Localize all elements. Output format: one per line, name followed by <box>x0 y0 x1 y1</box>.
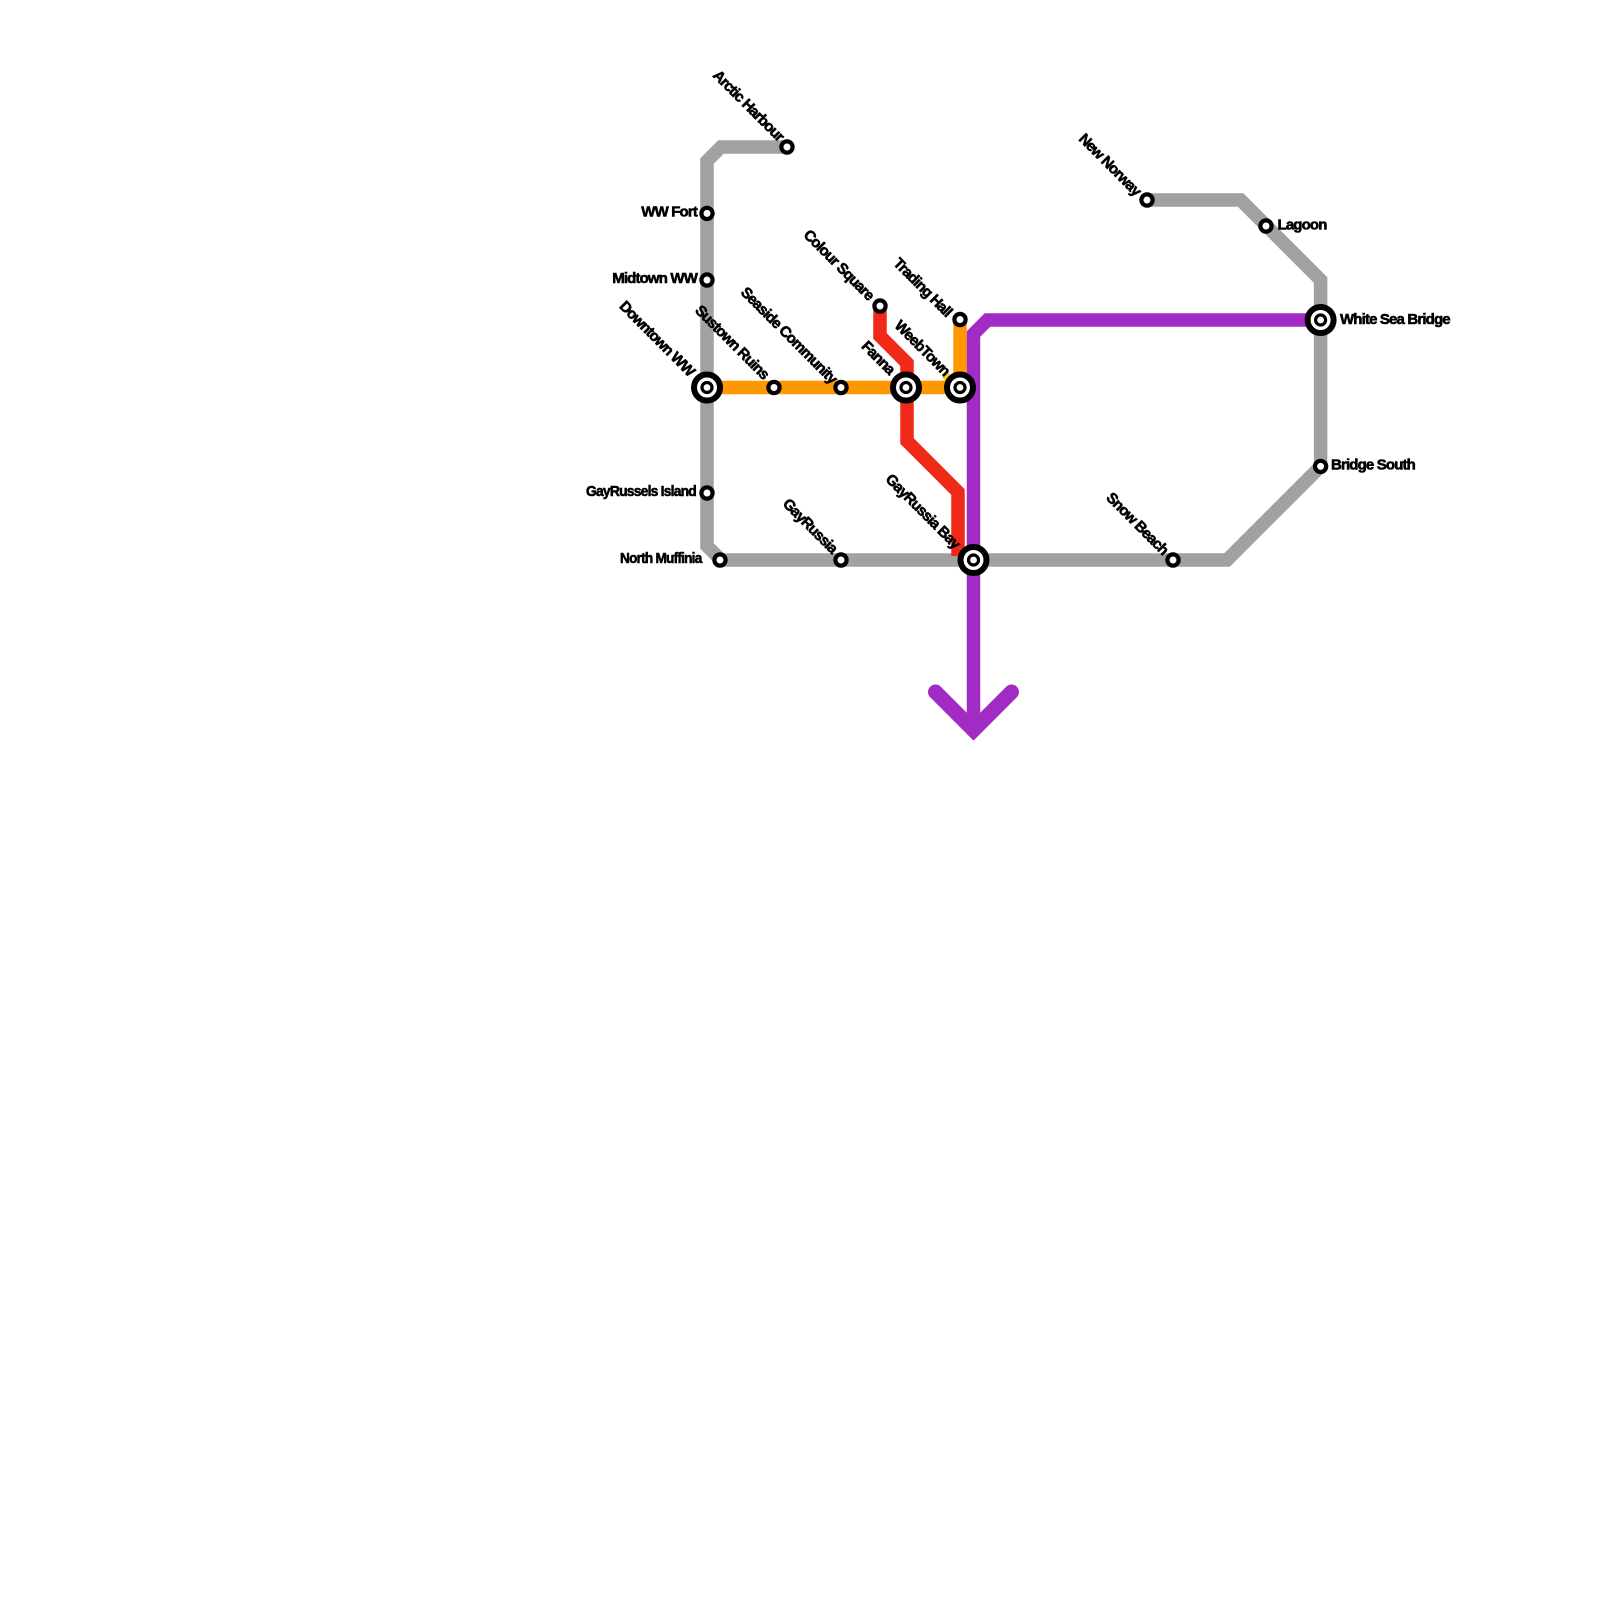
wire orange line <box>707 320 960 388</box>
svg-text:New Norway: New Norway <box>1075 130 1145 200</box>
wire red line <box>880 306 958 556</box>
node White Sea Bridge interchange <box>1308 307 1334 333</box>
node Sustown Ruins <box>768 382 779 393</box>
wire yellow line stub under WeebTown <box>945 375 959 389</box>
node Trading Hall <box>954 314 965 325</box>
node Snow Beach <box>1167 554 1178 565</box>
node Downtown WW interchange <box>694 375 720 401</box>
svg-text:Lagoon: Lagoon <box>1278 217 1328 234</box>
svg-text:White Sea Bridge: White Sea Bridge <box>1340 311 1450 328</box>
svg-text:Downtown WW: Downtown WW <box>616 298 699 381</box>
node Bridge South <box>1315 461 1326 472</box>
purple arrowhead <box>936 692 1012 730</box>
svg-text:Bridge South: Bridge South <box>1331 457 1416 474</box>
node GayRussels Island <box>701 487 712 498</box>
svg-text:Snow Beach: Snow Beach <box>1103 489 1173 559</box>
svg-text:North Muffinia: North Muffinia <box>620 550 703 567</box>
node GayRussia Bay interchange <box>961 547 987 573</box>
node GayRussia <box>835 554 846 565</box>
node Lagoon <box>1260 220 1271 231</box>
svg-text:Trading Hall: Trading Hall <box>890 255 956 321</box>
svg-text:Colour Square: Colour Square <box>800 227 878 305</box>
node Colour Square <box>874 300 885 311</box>
node Midtown WW <box>701 274 712 285</box>
svg-text:Arctic Harbour: Arctic Harbour <box>709 67 788 146</box>
wire purple line <box>974 320 1321 719</box>
node Seaside Community <box>835 382 846 393</box>
node WW Fort <box>701 208 712 219</box>
node WeebTown interchange <box>947 375 973 401</box>
node Fanna interchange <box>893 375 919 401</box>
svg-text:GayRussels Island: GayRussels Island <box>586 483 697 500</box>
wire gray loop line <box>707 147 1321 560</box>
node New Norway <box>1141 194 1152 205</box>
svg-text:Midtown WW: Midtown WW <box>612 270 698 287</box>
node Arctic Harbour <box>781 141 792 152</box>
node North Muffinia <box>714 554 725 565</box>
svg-text:GayRussia: GayRussia <box>779 495 842 558</box>
svg-text:WW Fort: WW Fort <box>641 204 698 221</box>
